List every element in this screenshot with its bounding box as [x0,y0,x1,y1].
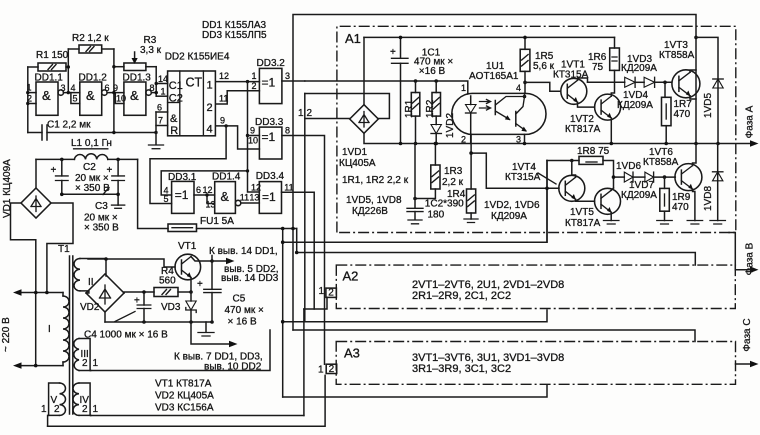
svg-text:3,3 к: 3,3 к [140,45,162,56]
svg-text:DD3 К155ЛП5: DD3 К155ЛП5 [202,30,267,41]
svg-text:&: & [42,88,51,103]
svg-text:C2: C2 [83,162,96,173]
svg-text:выв. 14 DD3: выв. 14 DD3 [221,273,279,284]
svg-text:6: 6 [105,83,110,93]
svg-text:VD1 КЦ409А: VD1 КЦ409А [2,159,13,218]
svg-text:C3: C3 [95,201,108,212]
svg-text:DD1.4: DD1.4 [212,172,241,183]
svg-text:2: 2 [82,404,88,415]
svg-text:VD3 КС156А: VD3 КС156А [155,403,214,414]
svg-text:R1 150: R1 150 [36,50,69,61]
svg-text:DD1.3: DD1.3 [123,73,152,84]
svg-text:&: & [221,190,230,204]
svg-text:13: 13 [249,193,259,203]
svg-text:2R1–2R9, 2C1, 2C2: 2R1–2R9, 2C1, 2C2 [412,290,511,302]
svg-text:1VT5: 1VT5 [570,207,594,218]
svg-text:1R1: 1R1 [404,99,415,118]
svg-text:&: & [170,113,178,125]
svg-text:A2: A2 [343,269,359,284]
svg-text:1VD8: 1VD8 [703,186,714,211]
svg-text:КТ315А: КТ315А [505,172,541,183]
svg-text:A3: A3 [344,346,360,361]
svg-text:R: R [170,125,178,137]
svg-text:~ 220 В: ~ 220 В [1,317,12,352]
svg-text:КТ817А: КТ817А [565,218,601,229]
svg-text:VT1: VT1 [178,241,197,252]
svg-text:1: 1 [207,80,213,92]
svg-text:+: + [134,296,140,307]
svg-text:× 350 В: × 350 В [84,223,119,234]
svg-text:3: 3 [285,71,290,81]
svg-text:2: 2 [54,404,60,415]
svg-text:Фаза В: Фаза В [745,242,756,275]
svg-text:6: 6 [157,103,162,113]
svg-text:1: 1 [319,286,325,297]
svg-text:9: 9 [113,83,118,93]
svg-text:5,6 к: 5,6 к [533,61,555,72]
svg-text:2: 2 [328,288,334,299]
svg-text:5: 5 [73,94,78,104]
svg-text:С4 1000 мк × 16 В: С4 1000 мк × 16 В [84,330,168,341]
svg-text:1VD1: 1VD1 [342,147,367,158]
svg-text:2: 2 [307,108,313,119]
svg-text:1: 1 [252,71,257,81]
svg-text:8: 8 [285,126,290,136]
svg-text:DD1.1: DD1.1 [35,73,64,84]
svg-text:DD3.3: DD3.3 [255,117,284,128]
svg-text:14: 14 [158,74,168,84]
svg-text:1R4: 1R4 [447,189,466,200]
svg-text:=1: =1 [262,130,276,144]
svg-text:2: 2 [207,102,213,114]
svg-text:560: 560 [159,276,176,287]
svg-text:10: 10 [116,94,126,104]
svg-text:FU1 5A: FU1 5A [200,216,234,227]
svg-text:470 мк ×: 470 мк × [225,305,264,316]
svg-text:1: 1 [318,365,324,376]
svg-text:+: + [51,165,57,176]
svg-text:&: & [130,88,139,103]
svg-text:× 16 В: × 16 В [228,317,258,328]
svg-text:12: 12 [219,71,229,81]
svg-text:1: 1 [298,108,304,119]
svg-text:КД209А: КД209А [621,190,657,201]
svg-text:КТ858А: КТ858А [659,50,695,61]
svg-text:2: 2 [252,81,257,91]
svg-text:1С2*390: 1С2*390 [425,199,464,210]
svg-text:выв. 10 DD2: выв. 10 DD2 [204,362,262,373]
svg-text:8: 8 [150,83,155,93]
svg-text:11: 11 [240,193,249,203]
svg-text:4: 4 [207,124,213,136]
svg-text:2: 2 [461,135,466,145]
svg-text:1: 1 [41,404,47,415]
svg-text:C2: C2 [169,93,183,105]
svg-text:A1: A1 [345,31,361,46]
svg-text:3R1–3R9, 3C1, 3C2: 3R1–3R9, 3C1, 3C2 [412,363,511,375]
svg-text:=1: =1 [262,190,276,204]
svg-text:1: 1 [93,404,99,415]
svg-text:1: 1 [27,83,32,93]
svg-text:C5: C5 [233,294,246,305]
svg-text:470: 470 [674,109,691,120]
svg-text:КД209А: КД209А [491,211,527,222]
svg-text:К выв. 14 DD1,: К выв. 14 DD1, [209,246,278,257]
svg-text:470: 470 [672,202,689,213]
svg-text:VD3: VD3 [161,302,181,313]
svg-text:&: & [86,88,95,103]
svg-text:180: 180 [428,209,445,220]
svg-text:DD1.2: DD1.2 [79,73,108,84]
svg-text:КД226В: КД226В [352,206,388,217]
svg-text:VT1 КТ817А: VT1 КТ817А [155,379,212,390]
svg-text:1: 1 [461,83,466,93]
svg-text:1VD2, 1VD6: 1VD2, 1VD6 [484,200,540,211]
svg-text:1VD6: 1VD6 [616,161,641,172]
svg-text:=1: =1 [175,188,189,202]
svg-text:1R2: 1R2 [425,99,436,118]
svg-text:L1 0,1 Гн: L1 0,1 Гн [71,138,112,149]
svg-text:DD3.2: DD3.2 [257,58,286,69]
svg-text:1VD5: 1VD5 [703,93,714,118]
svg-text:CT: CT [186,76,203,90]
svg-text:1R8 75: 1R8 75 [577,146,610,157]
svg-text:DD3.1: DD3.1 [168,172,197,183]
svg-text:11: 11 [284,183,293,193]
svg-text:7: 7 [158,116,163,126]
svg-text:1VD5, 1VD8: 1VD5, 1VD8 [346,195,402,206]
svg-text:2: 2 [82,358,88,369]
svg-text:DD2 К155ИЕ4: DD2 К155ИЕ4 [165,52,230,63]
svg-text:T1: T1 [58,244,70,255]
svg-text:C1: C1 [169,80,183,92]
svg-text:КД209А: КД209А [621,63,657,74]
svg-text:4: 4 [71,83,76,93]
svg-text:2: 2 [329,364,335,375]
svg-text:1R1, 1R2 2,2 к: 1R1, 1R2 2,2 к [342,175,409,186]
svg-text:КТ858А: КТ858А [643,157,679,168]
svg-text:75: 75 [592,62,604,73]
svg-text:=1: =1 [262,76,276,90]
svg-text:DD3.4: DD3.4 [256,171,285,182]
svg-text:9: 9 [250,126,255,136]
svg-text:3: 3 [61,83,66,93]
svg-text:1R3: 1R3 [444,166,463,177]
svg-text:КД209А: КД209А [617,100,653,111]
svg-text:VD2 КЦ405А: VD2 КЦ405А [155,391,214,402]
svg-text:1: 1 [93,358,99,369]
svg-text:+: + [197,279,203,290]
svg-text:+: + [390,47,396,58]
svg-text:Фаза С: Фаза С [742,318,753,351]
svg-text:Фаза А: Фаза А [745,105,756,138]
svg-text:КТ817А: КТ817А [565,124,601,135]
svg-text:3: 3 [516,135,521,145]
svg-text:I: I [48,324,51,335]
svg-text:11: 11 [219,94,228,104]
svg-text:2,2 к: 2,2 к [442,177,464,188]
svg-text:VD2: VD2 [80,302,100,313]
svg-text:R2 1,2 к: R2 1,2 к [72,33,109,44]
svg-text:КТ315А: КТ315А [553,70,589,81]
svg-text:4: 4 [516,83,521,93]
svg-text:C1 2,2 мк: C1 2,2 мк [47,120,91,131]
svg-text:1: 1 [161,87,166,97]
svg-text:КЦ405А: КЦ405А [339,158,376,169]
svg-text:10: 10 [248,136,258,146]
svg-text:9: 9 [220,116,225,126]
svg-text:AOT165A1: AOT165A1 [469,71,519,82]
svg-text:×16 В: ×16 В [419,66,446,77]
svg-text:2: 2 [27,94,32,104]
svg-text:6: 6 [196,185,201,195]
svg-text:12: 12 [251,183,261,193]
